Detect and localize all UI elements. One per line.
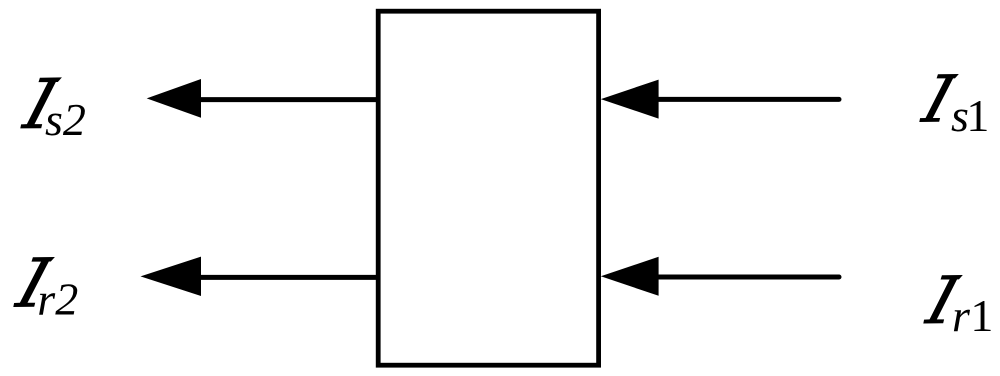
wire: bottom-right input shaft	[655, 275, 839, 280]
arrowhead: current Ir1 into right port	[601, 257, 659, 296]
arrowhead: current Ir2 out of left port	[141, 257, 202, 296]
arrowhead: current Is2 out of left port	[147, 79, 201, 118]
svg-text:r2: r2	[37, 274, 78, 325]
wire: top-left output shaft	[197, 97, 378, 102]
two-port network block U1	[378, 11, 598, 365]
label Is1	[919, 74, 959, 122]
wire: bottom-left output shaft	[197, 275, 378, 280]
svg-text:r1: r1	[952, 290, 993, 341]
wire: top-right input shaft	[655, 97, 839, 102]
label Is2	[20, 77, 62, 128]
svg-text:s2: s2	[45, 94, 86, 145]
label Ir1	[923, 275, 963, 324]
label Ir2	[13, 257, 55, 307]
arrowhead: current Is1 into right port	[601, 80, 659, 119]
svg-text:s1: s1	[951, 90, 989, 141]
